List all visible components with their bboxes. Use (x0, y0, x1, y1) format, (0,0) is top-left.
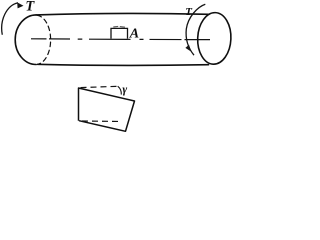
left end cap solid arc (15, 15, 36, 65)
gamma angle arc (118, 86, 122, 94)
original top edge dashed (81, 86, 119, 87)
left torque arrowhead (17, 2, 23, 8)
left torque arrow arc (2, 3, 18, 35)
surface element square A (111, 28, 128, 38)
smudge above element top edge (113, 25, 125, 28)
wire cylinder top generator line (36, 13, 209, 14)
centerline dash-dot axis (31, 38, 210, 41)
right torque arrowhead (185, 45, 191, 52)
svg-text:T: T (185, 6, 193, 18)
svg-text:T: T (25, 0, 35, 15)
right torque arrow arc (186, 4, 205, 55)
svg-text:A: A (129, 27, 139, 42)
original bottom edge dashed (82, 120, 122, 123)
wire cylinder bottom generator line (38, 64, 209, 65)
left end cap hidden edge dashed arc (37, 15, 50, 64)
svg-text:γ: γ (122, 84, 127, 96)
sheared element outline (79, 88, 135, 131)
right end cap ellipse (197, 12, 232, 65)
